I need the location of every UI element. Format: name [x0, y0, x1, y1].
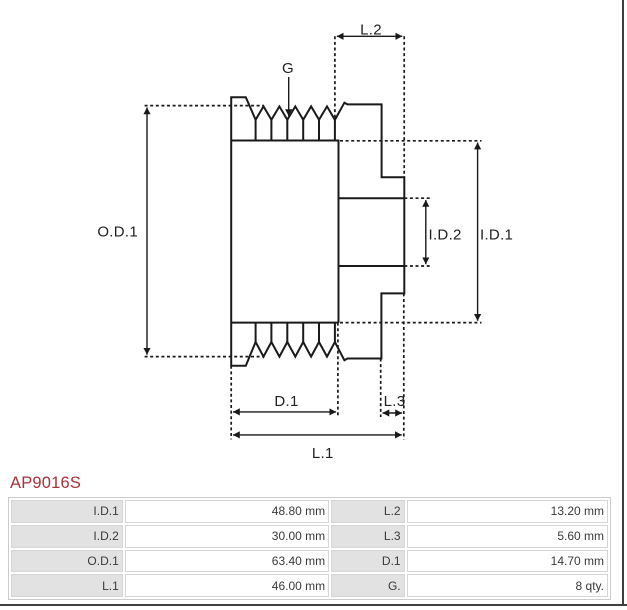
bore top line — [339, 197, 405, 199]
svg-text:L.1: L.1 — [312, 445, 334, 462]
top groove walls — [256, 120, 335, 141]
I.D.2 top extension — [404, 197, 430, 199]
I.D.2 bottom extension — [404, 265, 430, 267]
dimensions table — [8, 497, 611, 600]
O.D.1 bottom extension — [145, 356, 265, 358]
top groove base line — [231, 140, 339, 142]
I.D.1 bottom extension — [340, 322, 482, 324]
L.1 dimension line — [233, 434, 402, 436]
L.2 dimension line — [337, 35, 403, 37]
svg-text:G: G — [282, 60, 294, 77]
D.1 dimension line — [233, 411, 336, 413]
right rule — [622, 0, 624, 606]
L.2 left extension — [334, 36, 336, 120]
D.1 right extension — [337, 323, 339, 417]
svg-text:D.1: D.1 — [274, 393, 298, 410]
O.D.1 top extension — [145, 105, 264, 107]
L.3 left extension — [380, 359, 382, 418]
bottom rule — [0, 604, 627, 606]
svg-text:I.D.1: I.D.1 — [480, 227, 513, 244]
I.D.2 dimension line — [425, 200, 427, 264]
bottom groove walls — [256, 323, 335, 342]
body right edge — [338, 141, 340, 323]
L.3 dimension line — [383, 412, 403, 414]
D.1 left extension — [230, 366, 232, 440]
part number title — [10, 474, 81, 493]
svg-text:L.2: L.2 — [360, 22, 382, 39]
I.D.1 top extension — [340, 140, 482, 142]
L.2 right extension — [403, 36, 405, 177]
G arrow — [288, 77, 290, 116]
I.D.1 dimension line — [477, 143, 479, 321]
O.D.1 dimension line — [146, 108, 148, 355]
bore bottom line — [339, 265, 405, 267]
svg-text:L.3: L.3 — [384, 393, 406, 410]
svg-text:I.D.2: I.D.2 — [429, 227, 462, 244]
L.1 right extension — [403, 293, 405, 439]
bottom groove base line — [231, 322, 338, 324]
svg-text:O.D.1: O.D.1 — [97, 223, 138, 240]
pulley outline — [231, 97, 404, 366]
